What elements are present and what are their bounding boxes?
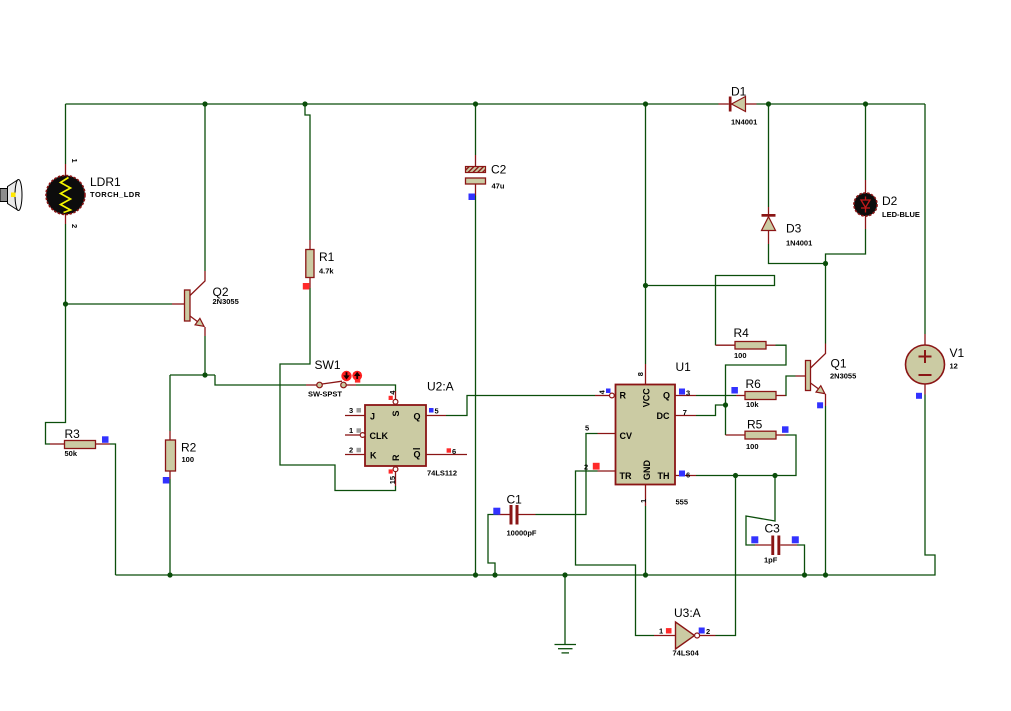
inverter U3:A 74LS04: [654, 606, 716, 658]
svg-text:D1: D1: [731, 85, 747, 99]
diode D3 1N4001: [762, 207, 813, 248]
svg-text:1N4001: 1N4001: [786, 239, 812, 248]
wire CV to C1: [536, 434, 598, 515]
logic state markers U2: [357, 396, 452, 474]
wire SW1 to U2 S pin: [356, 385, 396, 391]
blue marker R2: [163, 477, 170, 484]
photoresistor LDR1: [46, 159, 141, 229]
blue marker C3 right: [792, 536, 799, 543]
wire V1 top: [924, 104, 926, 334]
node Q2 collector on rail: [202, 101, 207, 106]
wire U1 VCC vertical: [645, 104, 647, 364]
node C2 on rail: [473, 101, 478, 106]
svg-text:8: 8: [636, 372, 645, 376]
wire Q2 base: [66, 303, 173, 305]
svg-text:2: 2: [706, 627, 710, 636]
resistor R1: [306, 240, 335, 288]
svg-text:1: 1: [349, 426, 353, 435]
wire node to R5: [725, 405, 727, 435]
resistor R4: [716, 326, 776, 360]
svg-text:47u: 47u: [492, 182, 505, 191]
wire top rail left: [66, 103, 719, 105]
svg-text:15: 15: [388, 476, 397, 484]
toggle actuator icons SW1: [341, 371, 362, 383]
node VCC branch junction: [643, 283, 648, 288]
svg-text:U2:A: U2:A: [427, 380, 454, 394]
svg-text:TH: TH: [658, 471, 670, 481]
wire D3 bottom to collector node: [769, 244, 826, 264]
svg-text:D3: D3: [786, 222, 802, 236]
wire U1 GND down: [645, 506, 647, 575]
svg-text:100: 100: [734, 351, 747, 360]
svg-text:2N3055: 2N3055: [213, 297, 239, 306]
svg-text:TR: TR: [620, 471, 632, 481]
wire R6 right to Q1 base: [786, 376, 796, 396]
svg-text:R6: R6: [746, 377, 762, 391]
svg-text:V1: V1: [950, 346, 965, 360]
logic state markers U1: [593, 389, 685, 477]
svg-text:LDR1: LDR1: [90, 175, 121, 189]
svg-text:3: 3: [686, 388, 690, 397]
wire D3 top: [768, 104, 770, 207]
svg-text:1: 1: [70, 159, 79, 163]
svg-text:C1: C1: [507, 493, 523, 507]
blue marker V1: [916, 393, 922, 399]
svg-text:Q1: Q1: [831, 357, 847, 371]
svg-text:Q: Q: [663, 391, 670, 401]
resistor R2: [166, 431, 197, 479]
svg-text:2N3055: 2N3055: [830, 372, 856, 381]
svg-text:2: 2: [349, 445, 353, 454]
wire R2 top drop: [169, 375, 171, 431]
wire U1 Q to R6: [696, 395, 736, 397]
svg-text:R4: R4: [734, 326, 750, 340]
timer U1 555: [584, 360, 696, 507]
LED D2 LED-BLUE: [854, 180, 920, 229]
svg-text:R2: R2: [181, 441, 197, 455]
wire R4 right to node: [726, 345, 787, 405]
node ground on bus: [562, 572, 567, 577]
node TH C3 junction: [772, 473, 777, 478]
svg-text:1: 1: [639, 499, 648, 503]
svg-text:12: 12: [950, 362, 958, 371]
svg-text:100: 100: [746, 442, 759, 451]
svg-text:LED-BLUE: LED-BLUE: [882, 210, 920, 219]
svg-text:2: 2: [584, 463, 588, 472]
wire node to DC pin: [696, 405, 726, 416]
svg-text:SW-SPST: SW-SPST: [308, 390, 342, 399]
capacitor C3: [755, 522, 797, 565]
blue marker R5: [782, 426, 789, 433]
svg-text:1: 1: [659, 627, 663, 636]
svg-text:Q: Q: [414, 412, 421, 422]
node C3 on bus: [802, 572, 807, 577]
torch icon: [0, 180, 22, 211]
svg-text:C3: C3: [765, 522, 781, 536]
svg-text:5: 5: [585, 424, 589, 433]
svg-text:R: R: [391, 454, 401, 461]
wire ground bus: [116, 395, 936, 576]
wire U3 output up to TH: [716, 476, 736, 636]
wire C1 left to bus: [488, 515, 498, 576]
red marker R1: [303, 283, 310, 290]
node VCC on rail: [643, 101, 648, 106]
red marker U3 input: [666, 628, 672, 633]
svg-text:6: 6: [452, 447, 456, 456]
wire left rail LDR bottom to R3: [46, 224, 66, 444]
svg-text:74LS04: 74LS04: [673, 649, 700, 658]
svg-text:R1: R1: [319, 250, 335, 264]
svg-text:6: 6: [686, 470, 690, 479]
svg-text:Q: Q: [414, 450, 421, 460]
node C2 on bus: [473, 572, 478, 577]
svg-text:SW1: SW1: [315, 358, 341, 372]
node R4 R5 DC junction: [723, 402, 728, 407]
svg-text:10k: 10k: [746, 400, 759, 409]
flip-flop U2:A 74LS112: [345, 380, 467, 487]
node C1 on bus: [492, 572, 497, 577]
wire top rail right: [757, 103, 926, 105]
transistor Q2: [172, 271, 239, 336]
svg-text:4.7k: 4.7k: [319, 267, 334, 276]
wire R1 bottom to U2 R pin: [280, 288, 396, 491]
svg-text:7: 7: [683, 408, 687, 417]
node U1 GND on bus: [643, 572, 648, 577]
node TH U3 junction: [733, 473, 738, 478]
svg-text:3: 3: [349, 406, 353, 415]
node emitter junction: [202, 372, 207, 377]
svg-text:74LS112: 74LS112: [427, 469, 457, 478]
svg-text:R: R: [620, 391, 627, 401]
transistor Q1: [796, 344, 857, 407]
ground: [555, 645, 577, 653]
wire R2 bottom to bus: [169, 479, 171, 575]
wire junction to SW1: [215, 375, 306, 385]
wire D2 top: [865, 104, 867, 180]
wire Q2 collector: [204, 104, 206, 271]
svg-text:U1: U1: [676, 360, 692, 374]
resistor R5: [726, 418, 786, 452]
svg-text:R5: R5: [747, 418, 763, 432]
blue marker R6: [731, 387, 738, 394]
node D3 on rail: [766, 101, 771, 106]
svg-text:J: J: [370, 412, 375, 422]
blue marker C3 left: [751, 536, 758, 543]
wire D2 bottom jog: [826, 229, 866, 264]
wire C2 top: [475, 104, 477, 155]
wire R3 right to bus: [110, 444, 116, 575]
svg-text:VCC: VCC: [642, 388, 652, 408]
svg-text:S: S: [391, 410, 401, 416]
wire VCC to R4: [646, 276, 775, 346]
wire Q2 emitter down: [204, 336, 206, 375]
svg-text:100: 100: [182, 455, 195, 464]
wire R1 top jog: [305, 104, 310, 240]
wire Q1 collector up: [825, 264, 827, 344]
node D3 D2 Q1 junction: [823, 261, 828, 266]
wire C3 right to bus: [797, 545, 805, 575]
node D2 on rail: [863, 101, 868, 106]
node R1 on rail: [302, 101, 307, 106]
resistor R6: [736, 377, 786, 409]
capacitor C1: [498, 493, 537, 538]
svg-text:U3:A: U3:A: [674, 606, 701, 620]
svg-text:DC: DC: [657, 411, 670, 421]
wire ground stem: [564, 575, 566, 645]
resistor R3: [50, 427, 110, 458]
svg-text:555: 555: [676, 498, 689, 507]
switch SW1: [306, 358, 356, 399]
node base junction: [63, 301, 68, 306]
node R2 on bus: [167, 572, 172, 577]
blue marker U3 output: [699, 628, 705, 634]
svg-text:5: 5: [435, 406, 439, 415]
svg-text:K: K: [370, 451, 377, 461]
wire C2 bottom to ground bus: [475, 196, 477, 576]
svg-text:D2: D2: [882, 194, 898, 208]
svg-text:CV: CV: [620, 431, 633, 441]
diode D1 1N4001: [719, 85, 758, 127]
blue marker Q1: [817, 402, 823, 408]
wire left rail LDR top: [65, 104, 67, 164]
wire Q1 emitter to bus: [825, 406, 827, 575]
wire U2 Q to U1 R: [446, 396, 595, 416]
svg-text:TORCH_LDR: TORCH_LDR: [90, 190, 141, 199]
wire C3 left branch with diagonal: [746, 476, 775, 546]
svg-text:10000pF: 10000pF: [507, 529, 537, 538]
node Q1 emitter on bus: [823, 572, 828, 577]
svg-text:50k: 50k: [65, 449, 78, 458]
wire R5 right to TH: [696, 435, 796, 476]
capacitor C2: [466, 155, 507, 196]
blue marker C2: [469, 194, 476, 201]
wire junction to R2: [170, 374, 215, 376]
battery V1: [906, 334, 965, 395]
wire TR to U3 input: [576, 471, 655, 636]
blue marker C1: [493, 508, 500, 515]
blue marker R3: [102, 436, 109, 443]
svg-text:R3: R3: [65, 427, 81, 441]
svg-text:C2: C2: [491, 163, 507, 177]
svg-text:2: 2: [70, 224, 79, 228]
svg-text:1N4001: 1N4001: [731, 118, 757, 127]
svg-text:GND: GND: [642, 460, 652, 481]
svg-text:CLK: CLK: [370, 431, 389, 441]
svg-text:1pF: 1pF: [764, 556, 778, 565]
